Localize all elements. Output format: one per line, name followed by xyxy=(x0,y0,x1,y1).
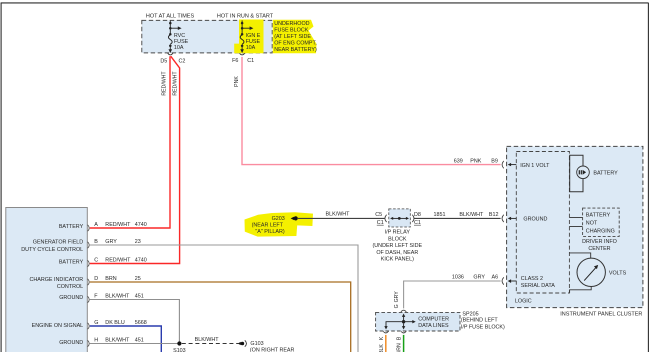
svg-text:GRY: GRY xyxy=(105,239,117,245)
volts gauge xyxy=(569,253,626,293)
svg-text:F6: F6 xyxy=(232,58,238,64)
svg-text:ENGINE ON SIGNAL: ENGINE ON SIGNAL xyxy=(32,323,84,329)
svg-text:K: K xyxy=(379,336,385,340)
svg-text:C1: C1 xyxy=(247,58,254,64)
svg-text:(UNDER LEFT SIDE: (UNDER LEFT SIDE xyxy=(372,243,422,249)
svg-text:RED/WHT: RED/WHT xyxy=(105,257,131,263)
label 639 PNK B9 xyxy=(454,158,498,164)
svg-text:25: 25 xyxy=(135,276,141,282)
svg-text:BATTERY: BATTERY xyxy=(586,212,611,218)
svg-text:OF DASH, NEAR: OF DASH, NEAR xyxy=(376,250,418,256)
svg-text:CHARGING: CHARGING xyxy=(586,228,615,234)
splice S103 xyxy=(177,341,181,345)
svg-text:B12: B12 xyxy=(489,212,499,218)
instrument panel cluster outer box xyxy=(507,146,643,307)
svg-text:PNK: PNK xyxy=(234,76,240,87)
svg-text:23: 23 xyxy=(135,239,141,245)
wire RED/WHT from C2 to pin C xyxy=(90,56,180,263)
svg-text:CENTER: CENTER xyxy=(588,246,610,252)
svg-text:DATA LINES: DATA LINES xyxy=(418,323,449,329)
svg-text:IGN 1 VOLT: IGN 1 VOLT xyxy=(520,163,550,169)
svg-text:BLOCK: BLOCK xyxy=(388,236,407,242)
svg-text:(NEAR LEFT: (NEAR LEFT xyxy=(252,223,284,229)
I/P relay block pass-through connector xyxy=(375,209,421,227)
svg-text:DK BLU: DK BLU xyxy=(105,320,125,326)
connector exits F6/C1 under right fuse xyxy=(232,53,254,64)
svg-text:451: 451 xyxy=(135,293,144,299)
svg-text:BATTERY: BATTERY xyxy=(59,224,84,230)
svg-text:G203: G203 xyxy=(272,216,285,222)
svg-text:B9: B9 xyxy=(491,158,498,164)
svg-text:(ON RIGHT REAR: (ON RIGHT REAR xyxy=(250,347,295,352)
wire BRN from pin D down off page xyxy=(90,282,351,352)
svg-text:CLASS 2: CLASS 2 xyxy=(521,276,543,282)
battery not charging box xyxy=(569,208,619,252)
svg-text:1036: 1036 xyxy=(452,275,464,281)
svg-text:PNK: PNK xyxy=(470,158,481,164)
highlight: underhood fuse block label yellow marker xyxy=(273,20,317,53)
svg-text:BATTERY: BATTERY xyxy=(59,260,84,266)
svg-text:HOT AT ALL TIMES: HOT AT ALL TIMES xyxy=(146,13,195,19)
wire GRY class 2 serial data from SP205 to cluster A6 xyxy=(404,281,501,308)
svg-text:INSTRUMENT PANEL CLUSTER: INSTRUMENT PANEL CLUSTER xyxy=(560,312,642,318)
svg-text:NOT: NOT xyxy=(586,220,598,226)
svg-text:(BEHIND LEFT: (BEHIND LEFT xyxy=(461,318,499,324)
battery telltale lamp xyxy=(570,155,618,192)
svg-text:LOGIC: LOGIC xyxy=(515,298,532,304)
svg-text:FUSE BLOCK: FUSE BLOCK xyxy=(274,28,309,34)
ground G203 xyxy=(252,216,298,235)
svg-text:CONTROL: CONTROL xyxy=(57,284,83,290)
svg-text:DUTY CYCLE CONTROL: DUTY CYCLE CONTROL xyxy=(21,247,83,253)
ground G103 xyxy=(238,340,295,352)
svg-text:C5: C5 xyxy=(375,212,382,218)
wire DK BLU from pin G down off page xyxy=(90,326,162,352)
svg-text:A: A xyxy=(94,222,98,228)
svg-text:UNDERHOOD: UNDERHOOD xyxy=(274,21,309,27)
wire RED/WHT from D5 to pin A xyxy=(90,56,170,228)
svg-text:BLK/WHT: BLK/WHT xyxy=(105,337,130,343)
wire ORN down from SP205 xyxy=(385,335,387,352)
svg-text:GRY: GRY xyxy=(473,275,485,281)
wire GRN down from SP205 xyxy=(403,335,405,352)
svg-text:RED/WHT: RED/WHT xyxy=(173,71,179,96)
highlight: IGN E fuse yellow marker xyxy=(234,20,263,54)
svg-text:I/P FUSE BLOCK): I/P FUSE BLOCK) xyxy=(461,324,505,330)
svg-text:HOT IN RUN & START: HOT IN RUN & START xyxy=(217,13,274,19)
fuse IGN E 10A xyxy=(240,20,261,53)
SP205 bottom pin arcs xyxy=(383,331,388,333)
svg-text:4740: 4740 xyxy=(135,222,147,228)
svg-text:5668: 5668 xyxy=(135,320,147,326)
svg-text:GROUND: GROUND xyxy=(523,217,547,223)
svg-text:451: 451 xyxy=(135,337,144,343)
svg-text:KICK PANEL): KICK PANEL) xyxy=(381,257,414,263)
connector exits D5/C2 under left fuse xyxy=(160,53,185,64)
svg-text:D5: D5 xyxy=(160,58,167,64)
wire BLK/WHT from pin H to S103 xyxy=(90,343,180,345)
label I/P RELAY BLOCK xyxy=(372,230,422,263)
svg-text:S103: S103 xyxy=(173,348,186,352)
cluster input B9 arc and arrow xyxy=(502,161,550,169)
svg-text:SERIAL DATA: SERIAL DATA xyxy=(521,283,555,289)
svg-text:10A: 10A xyxy=(246,45,256,51)
svg-text:COMPUTER: COMPUTER xyxy=(418,316,449,322)
logic inner box xyxy=(516,152,569,294)
svg-text:BLK/WHT: BLK/WHT xyxy=(326,212,351,218)
svg-text:DRIVER INFO: DRIVER INFO xyxy=(582,239,617,245)
svg-text:CHARGE INDICATOR: CHARGE INDICATOR xyxy=(29,277,83,283)
svg-text:BATTERY: BATTERY xyxy=(593,171,618,177)
highlight: G203 yellow marker xyxy=(245,212,314,236)
generator box (left component) xyxy=(6,208,88,352)
svg-text:BLK/WHT: BLK/WHT xyxy=(105,293,130,299)
wire GRY from pin B down off page xyxy=(90,245,358,352)
svg-text:639: 639 xyxy=(454,158,463,164)
svg-text:BLK: BLK xyxy=(379,344,385,352)
svg-text:RED/WHT: RED/WHT xyxy=(105,222,131,228)
svg-text:BLK/WHT: BLK/WHT xyxy=(459,212,484,218)
svg-text:I/P RELAY: I/P RELAY xyxy=(385,230,411,236)
svg-text:H: H xyxy=(94,337,98,343)
wire BLK/WHT relay to cluster B12 xyxy=(414,217,501,219)
label SP205 xyxy=(461,311,505,330)
svg-text:10A: 10A xyxy=(174,45,184,51)
svg-text:G103: G103 xyxy=(250,341,263,347)
svg-text:(AT LEFT SIDE: (AT LEFT SIDE xyxy=(274,34,311,40)
svg-text:GRN: GRN xyxy=(397,343,403,352)
svg-text:B: B xyxy=(397,336,403,340)
svg-text:RED/WHT: RED/WHT xyxy=(162,71,168,96)
svg-text:1851: 1851 xyxy=(434,212,446,218)
svg-text:B: B xyxy=(94,239,98,245)
cluster input A6 arc and arrow xyxy=(502,276,555,289)
fuse RVC 10A xyxy=(168,20,188,53)
wire BLK/WHT G203 to I/P relay block xyxy=(298,217,385,219)
svg-text:GROUND: GROUND xyxy=(59,295,83,301)
svg-text:C1: C1 xyxy=(377,220,384,226)
svg-text:VOLTS: VOLTS xyxy=(609,271,627,277)
splice pack SP205 computer data lines xyxy=(376,310,460,331)
svg-text:SP205: SP205 xyxy=(462,311,478,317)
svg-text:A6: A6 xyxy=(492,275,499,281)
svg-text:C2: C2 xyxy=(179,58,186,64)
generator pin arcs xyxy=(88,225,90,347)
wire PNK from F6 to cluster B9 xyxy=(242,57,501,165)
svg-text:NEAR BATTERY): NEAR BATTERY) xyxy=(274,47,317,53)
svg-text:OF ENG COMPT,: OF ENG COMPT, xyxy=(274,40,317,46)
svg-text:C1: C1 xyxy=(414,220,421,226)
svg-text:G: G xyxy=(94,320,98,326)
label UNDERHOOD FUSE BLOCK xyxy=(274,21,317,53)
underhood fuse block box xyxy=(142,20,272,53)
svg-text:BRN: BRN xyxy=(105,276,116,282)
cluster input B12 arc and arrow xyxy=(502,215,547,223)
svg-text:BLK/WHT: BLK/WHT xyxy=(195,337,220,343)
svg-text:"A" PILLAR): "A" PILLAR) xyxy=(255,229,284,235)
svg-text:GROUND: GROUND xyxy=(59,340,83,346)
svg-text:D: D xyxy=(94,276,98,282)
generator pin labels left side xyxy=(21,224,83,346)
wire BLK/WHT dashed to G103 xyxy=(182,343,238,345)
svg-text:4740: 4740 xyxy=(135,257,147,263)
svg-text:GRY: GRY xyxy=(394,291,400,303)
svg-text:G: G xyxy=(394,304,400,308)
svg-text:D8: D8 xyxy=(414,212,421,218)
svg-text:GENERATOR FIELD: GENERATOR FIELD xyxy=(33,240,84,246)
generator pin letters and wire labels xyxy=(94,222,147,344)
wire BLK/WHT from pin F to S103 xyxy=(90,300,180,344)
svg-text:C: C xyxy=(94,257,98,263)
